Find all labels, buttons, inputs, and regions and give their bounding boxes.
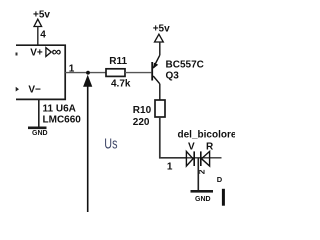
probe arrow Us (83, 75, 92, 212)
svg-text:+5v: +5v (33, 10, 50, 21)
V- label (28, 85, 41, 96)
wire common cathode to ground (197, 158, 199, 190)
wire +5v to emitter (159, 42, 161, 55)
V label (green LED) (188, 142, 195, 153)
svg-text:D: D (217, 175, 223, 184)
R label (red LED) (206, 142, 214, 153)
svg-text:GND: GND (32, 130, 48, 137)
svg-text:+5v: +5v (153, 24, 170, 35)
amp symbol (triangle + infinity) (46, 44, 62, 59)
resistor R10 (155, 100, 165, 117)
wire through LEDs (187, 157, 222, 159)
svg-text:Q3: Q3 (166, 70, 180, 81)
op-amp U6A box (16, 45, 65, 99)
svg-text:1: 1 (167, 162, 173, 173)
transistor Q3 BC557C (PNP) (151, 55, 160, 100)
Q3 label (166, 70, 180, 81)
LED V diode (anode left) (186, 151, 194, 166)
pin 11 wire to ground (38, 99, 40, 127)
pin 11 / U6A label (43, 104, 76, 115)
svg-text:V+: V+ (30, 47, 43, 58)
svg-text:∞: ∞ (52, 44, 62, 59)
clipped component bar (222, 189, 225, 206)
Us label (104, 135, 117, 152)
pin 4 label (40, 30, 46, 41)
svg-text:R11: R11 (109, 56, 127, 67)
power +5V (op-amp supply) (33, 10, 50, 27)
LED R diode (anode right) (201, 151, 210, 166)
LMC660 value label (43, 114, 82, 125)
svg-text:11 U6A: 11 U6A (43, 104, 76, 115)
V+ label (30, 47, 43, 58)
R10 value 220 (133, 117, 150, 128)
resistor R11 label (109, 56, 127, 67)
svg-text:4: 4 (40, 30, 46, 41)
pin 1 label (LED) (167, 162, 173, 173)
del_bicolore label (178, 129, 237, 140)
D label (clipped component) (217, 175, 223, 184)
svg-text:220: 220 (133, 117, 150, 128)
resistor R11 (106, 69, 125, 77)
input marker arrow (inverting) (16, 87, 19, 92)
wire R10 down and right to LED (160, 117, 187, 158)
svg-text:R10: R10 (133, 105, 152, 116)
pin 1 label (op-amp output) (69, 64, 75, 75)
svg-text:GND: GND (195, 196, 211, 203)
svg-text:Us: Us (104, 135, 117, 152)
wire op-amp output to R11 (65, 72, 106, 74)
input marker (non-inverting) (16, 53, 18, 56)
wire R11 to Q3 base (125, 72, 151, 74)
ground (LED GND) (191, 190, 214, 203)
pin 2 label (rotated) (197, 169, 207, 174)
svg-text:4.7k: 4.7k (111, 79, 131, 90)
resistor R10 label (133, 105, 152, 116)
svg-text:del_bicolore: del_bicolore (178, 129, 236, 140)
svg-text:LMC660: LMC660 (43, 114, 82, 125)
R11 value 4.7k (111, 79, 131, 90)
svg-text:V: V (188, 142, 195, 153)
svg-text:BC557C: BC557C (166, 59, 204, 70)
svg-text:V−: V− (28, 85, 41, 96)
wire pin4 to box (37, 27, 39, 46)
power +5v (transistor emitter) (153, 24, 170, 42)
BC557C label (166, 59, 204, 70)
ground (op-amp GND) (28, 127, 48, 138)
junction node dot (86, 71, 90, 75)
